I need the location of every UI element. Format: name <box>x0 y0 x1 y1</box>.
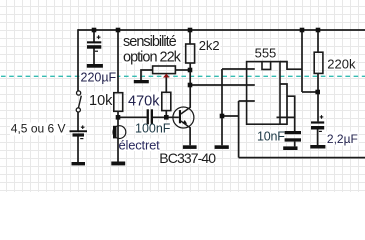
transistor emitter lead <box>181 121 190 128</box>
wire capacitor 100nF to transistor base <box>153 116 179 118</box>
junction rail / reset drop <box>300 28 305 33</box>
capacitor 220µF minus sign <box>95 50 98 52</box>
svg-text:10k: 10k <box>89 93 113 109</box>
junction collector / trigger wire <box>188 83 193 88</box>
wire capacitor 10nF to ground <box>294 142 296 147</box>
capacitor 100nF left plate <box>147 109 149 124</box>
capacitor 2,2µF minus sign <box>319 130 322 132</box>
resistor 10k <box>114 93 123 112</box>
wire resistor 470k to base node <box>165 111 167 118</box>
svg-text:470k: 470k <box>128 93 160 109</box>
wire node mic to coupling capacitor 100nF <box>118 116 147 118</box>
wire 555 reset pin to rail <box>280 62 302 70</box>
svg-text:100nF: 100nF <box>135 121 171 135</box>
capacitor 220µF plus sign <box>97 35 101 39</box>
battery plus sign <box>81 125 85 129</box>
capacitor 10nF bottom plate <box>285 138 301 141</box>
switch lever <box>79 96 82 108</box>
junction 555 left column <box>220 114 225 119</box>
ground (battery) <box>72 162 86 165</box>
dashed guide line (teal) <box>0 75 365 77</box>
label white backgrounds <box>10 35 359 165</box>
resistor 470k <box>162 92 171 110</box>
wire 555 output branch <box>287 96 295 117</box>
transistor base bar <box>179 110 181 123</box>
junction rail / 220µF <box>92 28 97 33</box>
wire rail to resistor 2k2 <box>189 30 191 44</box>
transistor collector lead <box>181 107 191 114</box>
wire node 222 to node 238 <box>222 115 239 117</box>
junction 470k / base wire <box>164 115 169 120</box>
junction rail / 220k <box>316 28 321 33</box>
potentiometer 22k body <box>153 66 176 74</box>
junction potentiometer / collector line <box>188 68 193 73</box>
wire rail to switch <box>77 29 79 91</box>
wire capacitor 2,2µF to ground <box>317 130 319 146</box>
junction rail / 2k2 <box>188 28 193 33</box>
wire battery minus to ground <box>77 137 79 163</box>
svg-text:sensibilité: sensibilité <box>123 34 177 50</box>
capacitor 10nF top plate <box>285 131 301 134</box>
electret microphone diaphragm bar <box>113 126 117 139</box>
ground (555 left column) <box>215 145 229 149</box>
battery minus sign <box>80 138 83 140</box>
svg-text:220k: 220k <box>327 57 356 72</box>
wire 555 pin at y69 <box>222 68 255 70</box>
wire rail to capacitor 220µF <box>93 30 95 42</box>
wire collector node to 555 trigger pin <box>190 84 255 86</box>
wire switch to battery plus <box>77 112 79 131</box>
transistor Q1 BC337-40 body <box>173 107 194 128</box>
wire resistor 2k2 to transistor collector <box>189 63 191 108</box>
capacitor 100nF right plate <box>151 109 153 124</box>
wire positive supply rail <box>78 29 365 31</box>
svg-text:10nF: 10nF <box>257 129 285 143</box>
wire 555 left pin column <box>238 101 240 158</box>
svg-text:BC337-40: BC337-40 <box>159 150 216 166</box>
wire transistor emitter to ground <box>189 127 191 145</box>
junction rail / 10k <box>116 28 121 33</box>
battery minus plate <box>73 133 85 136</box>
wire 555 threshold pin to capacitor 10nF <box>277 117 295 131</box>
transistor emitter arrow <box>183 120 188 124</box>
potentiometer wiper arrow <box>163 74 170 78</box>
ground (transistor emitter) <box>183 145 197 149</box>
wire rail to resistor 220k <box>317 30 319 52</box>
wire bottom return line <box>239 157 365 159</box>
junction 10k / mic / 100nF <box>116 115 121 120</box>
svg-text:4,5 ou 6 V: 4,5 ou 6 V <box>11 122 66 136</box>
resistor 2k2 <box>186 44 195 63</box>
wire potentiometer left terminal to ground <box>141 70 153 80</box>
wire 555 left column to ground <box>221 69 223 145</box>
ground (potentiometer) <box>134 80 149 83</box>
wire rail drop at x302 <box>301 29 303 92</box>
IC 555 pin-1 notch <box>262 62 271 70</box>
svg-text:2k2: 2k2 <box>199 38 220 53</box>
capacitor 2,2µF minus plate <box>311 126 324 130</box>
wire rail to resistor 10k <box>117 30 119 93</box>
capacitor 2,2µF plus sign <box>320 115 324 119</box>
capacitor 2,2µF plus plate <box>311 121 324 123</box>
electret microphone capsule <box>113 126 126 139</box>
capacitor 220µF plus plate <box>87 41 101 43</box>
junction 220k / 2,2µF <box>315 90 320 95</box>
battery 4,5 ou 6 V plus plate <box>70 130 88 132</box>
ground (capacitor 10nF) <box>283 146 297 150</box>
switch bottom contact <box>76 108 80 112</box>
wire resistor 220k to capacitor 2,2µF <box>317 73 319 121</box>
ground (capacitor 2,2µF) <box>310 145 325 149</box>
IC 555 timer body <box>247 62 280 125</box>
svg-text:2,2µF: 2,2µF <box>327 132 358 146</box>
wire 555 pin at y101 <box>239 100 255 102</box>
capacitor 220µF minus plate <box>87 45 101 49</box>
wire x302 to resistor 220k bottom node <box>302 91 318 93</box>
wire capacitor 220µF to ground <box>93 49 95 65</box>
wire potentiometer wiper to resistor 470k <box>165 77 167 92</box>
svg-text:220µF: 220µF <box>81 71 117 85</box>
resistor 220k <box>314 52 323 73</box>
ground (electret microphone) <box>111 162 125 166</box>
svg-text:555: 555 <box>255 46 277 61</box>
svg-text:électret: électret <box>119 138 161 153</box>
ground (capacitor 220µF) <box>87 64 103 68</box>
wire 555 output pin path <box>280 84 287 124</box>
svg-text:option 22k: option 22k <box>123 50 182 66</box>
wire potentiometer right terminal to collector node <box>175 69 190 71</box>
switch top contact <box>77 91 81 95</box>
wire resistor 10k to electret microphone and ground <box>117 111 119 161</box>
